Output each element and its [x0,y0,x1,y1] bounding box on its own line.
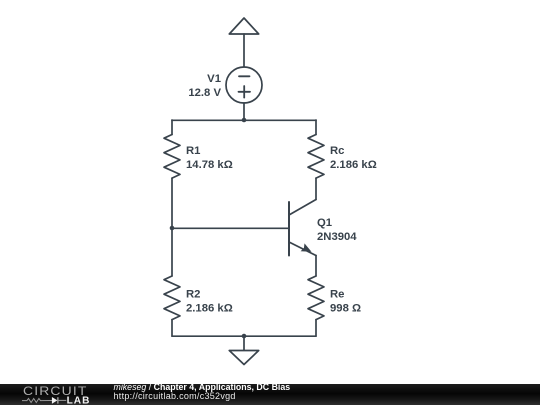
svg-text:12.8 V: 12.8 V [188,87,221,99]
ground [229,351,258,365]
wire top rail to Rc [315,120,317,135]
wire V1 to top node [243,103,245,120]
svg-text:R2: R2 [186,288,200,300]
wire top rail [172,119,316,121]
wire R2 to bottom rail [171,320,173,336]
wire bottom rail [172,335,316,337]
footer title text [114,383,291,392]
svg-text:V1: V1 [207,73,221,85]
svg-text:LAB: LAB [67,396,91,405]
wire emitter to Re [315,256,317,277]
node dot top [242,118,247,123]
wire to ground [243,336,245,351]
wire Rc to collector [315,178,317,199]
node dot bottom [242,334,247,339]
resistor R2 [164,276,180,320]
wire Re to bottom rail [315,320,317,336]
svg-text:R1: R1 [186,145,200,157]
transistor Q1 [289,200,316,256]
CircuitLab logo [0,384,100,405]
V1 plus sign [239,86,251,98]
label Rc value [330,145,377,171]
resistor Re [308,276,324,320]
svg-text:14.78 kΩ: 14.78 kΩ [186,159,233,171]
label V1 value [188,73,221,99]
wire R1 to base node [171,178,173,276]
wire flag to V1 [243,34,245,67]
logo resistor-diode [22,397,66,404]
resistor R1 [164,135,180,179]
svg-text:2.186 kΩ: 2.186 kΩ [330,159,377,171]
label R1 value [186,145,233,171]
label Re value [330,288,361,314]
footer url text [114,392,236,401]
footer bar [0,384,540,405]
label R2 value [186,288,233,314]
svg-text:Q1: Q1 [317,217,332,229]
label Q1 value [317,217,357,243]
node dot base [170,226,175,231]
svg-text:2N3904: 2N3904 [317,231,357,243]
resistor Rc [308,135,324,179]
svg-text:Re: Re [330,288,344,300]
wire base node to Q1 base [172,227,289,229]
svg-text:2.186 kΩ: 2.186 kΩ [186,302,233,314]
power flag VCC [229,18,258,34]
svg-text:Rc: Rc [330,145,344,157]
wire top rail to R1 [171,120,173,135]
V1 minus sign [239,75,250,77]
voltage source V1 circle [226,67,262,103]
svg-text:998 Ω: 998 Ω [330,302,361,314]
